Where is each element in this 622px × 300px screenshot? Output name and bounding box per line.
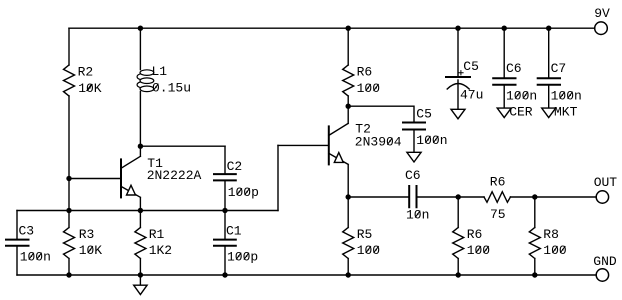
- node bottom C1: [222, 272, 227, 277]
- svg-text:100: 100: [357, 243, 380, 258]
- wire C7 ground stem: [548, 85, 550, 108]
- wire C6 cer top lead: [503, 28, 505, 78]
- wire C6 ground stem: [503, 85, 505, 108]
- wire C2 upper lead: [224, 146, 226, 174]
- wire R2 top lead: [68, 28, 70, 65]
- wire riser x278: [277, 145, 279, 210]
- node R6 out: [456, 194, 461, 199]
- svg-text:100: 100: [357, 81, 380, 96]
- node L1 top: [138, 26, 143, 31]
- svg-text:CER: CER: [509, 105, 533, 120]
- node C2 C1: [222, 208, 227, 213]
- wire R6 75 left lead: [458, 196, 484, 198]
- wire top 9V rail: [69, 27, 595, 29]
- capacitor C5 100n: [403, 123, 425, 130]
- wire C1 upper lead: [224, 211, 226, 240]
- svg-text:R1: R1: [149, 227, 165, 242]
- wire C2 lower lead: [224, 180, 226, 210]
- node bottom R3: [66, 272, 71, 277]
- wire ground stem under R1: [139, 275, 141, 285]
- resistor R2: [64, 65, 75, 96]
- svg-text:75: 75: [490, 207, 506, 222]
- ground main: [134, 285, 147, 294]
- resistor R6 emitter: [453, 197, 464, 275]
- wire C3 upper lead: [16, 211, 18, 240]
- svg-text:2N2222A: 2N2222A: [147, 168, 202, 183]
- wire L1 top lead: [139, 28, 141, 69]
- transistor T2: [329, 106, 348, 197]
- svg-text:100: 100: [467, 243, 490, 258]
- wire R6 top lead: [347, 28, 349, 65]
- resistor R8: [529, 197, 540, 275]
- svg-text:10K: 10K: [79, 243, 103, 258]
- ground under C5: [407, 152, 421, 162]
- ground under C6: [497, 108, 511, 118]
- terminal OUT: [596, 191, 608, 203]
- wire R2 bottom lead: [68, 96, 70, 179]
- resistor R6 collector: [343, 65, 354, 96]
- zero slashes: [29, 84, 573, 260]
- transistor T1: [121, 146, 140, 210]
- svg-text:100n: 100n: [551, 89, 582, 104]
- svg-text:2N3904: 2N3904: [355, 135, 402, 150]
- wire C5 47u ground stem: [457, 80, 459, 109]
- wire C1 lower lead: [224, 246, 226, 275]
- svg-text:C6: C6: [506, 61, 522, 76]
- svg-text:R8: R8: [543, 227, 559, 242]
- svg-text:100: 100: [543, 243, 566, 258]
- resistor R1: [135, 211, 146, 276]
- wire bottom rail: [17, 274, 596, 276]
- svg-text:10K: 10K: [78, 81, 102, 96]
- wire C6 to node: [417, 196, 459, 198]
- node C7 top: [546, 26, 551, 31]
- capacitor C6 100n CER: [493, 78, 515, 84]
- wire C5 47u top lead: [457, 28, 459, 77]
- wire emitter row: [69, 210, 278, 212]
- wire C5 ground stem: [413, 130, 415, 153]
- node T1 base: [66, 176, 71, 181]
- svg-text:47u: 47u: [460, 88, 483, 103]
- resistor R3: [64, 211, 75, 276]
- wire OUT row left: [348, 196, 409, 198]
- svg-text:GND: GND: [593, 254, 617, 269]
- wire T1 base: [69, 178, 121, 180]
- svg-text:R2: R2: [78, 65, 94, 80]
- svg-text:10n: 10n: [406, 208, 429, 223]
- svg-text:100p: 100p: [228, 185, 259, 200]
- wire left column: [68, 179, 70, 211]
- node T2 collector: [346, 104, 351, 109]
- wire T2 collector to C5: [348, 106, 414, 122]
- node bottom R1: [138, 272, 143, 277]
- wire R6 75 right lead: [510, 196, 534, 198]
- node bottom R6: [456, 272, 461, 277]
- svg-text:100p: 100p: [227, 250, 258, 265]
- svg-text:MKT: MKT: [554, 105, 578, 120]
- node C5 top: [455, 26, 460, 31]
- terminal 9V: [595, 22, 608, 35]
- wire T2 base: [278, 144, 329, 146]
- svg-text:R5: R5: [357, 227, 373, 242]
- resistor R6 75: [484, 192, 510, 203]
- svg-text:C6: C6: [405, 168, 421, 183]
- capacitor C6 10n: [409, 186, 416, 207]
- svg-text:R6: R6: [490, 174, 506, 189]
- node T1 emitter: [138, 208, 143, 213]
- svg-text:C5: C5: [416, 107, 432, 122]
- svg-text:R6: R6: [467, 227, 483, 242]
- node C6 top: [502, 26, 507, 31]
- svg-text:R6: R6: [357, 65, 373, 80]
- ground under C5 47u: [451, 109, 465, 119]
- svg-text:C3: C3: [19, 224, 35, 239]
- svg-text:100n: 100n: [416, 133, 447, 148]
- svg-text:100n: 100n: [20, 250, 51, 265]
- svg-text:C2: C2: [227, 159, 243, 174]
- svg-text:9V: 9V: [594, 6, 610, 21]
- svg-text:0.15u: 0.15u: [152, 81, 191, 96]
- capacitor C2: [214, 174, 236, 180]
- wire C3 top: [17, 210, 69, 212]
- node T2 emitter: [346, 194, 351, 199]
- node R6 top: [346, 26, 351, 31]
- terminal GND: [596, 269, 608, 281]
- capacitor C5 47u: [446, 71, 470, 89]
- node emitter row left: [66, 208, 71, 213]
- svg-text:R3: R3: [79, 227, 95, 242]
- node T1 collector: [138, 144, 143, 149]
- svg-text:C1: C1: [226, 224, 242, 239]
- resistor R5: [343, 197, 354, 275]
- wire C7 top lead: [548, 28, 550, 78]
- svg-text:1K2: 1K2: [149, 243, 172, 258]
- node R8 out: [532, 194, 537, 199]
- svg-text:C5: C5: [463, 59, 479, 74]
- wire R6 bottom lead: [347, 96, 349, 106]
- svg-text:OUT: OUT: [594, 175, 618, 190]
- capacitor C7 100n MKT: [538, 78, 560, 84]
- inductor L1: [137, 70, 154, 92]
- wire T1 collector row: [140, 145, 225, 147]
- svg-text:C7: C7: [551, 61, 567, 76]
- ground under C7: [542, 108, 556, 118]
- svg-text:100n: 100n: [506, 89, 537, 104]
- wire OUT lead: [535, 196, 596, 198]
- capacitor C1: [214, 240, 236, 246]
- node bottom R5: [346, 272, 351, 277]
- capacitor C3: [6, 240, 29, 246]
- wire C3 lower lead: [16, 246, 18, 275]
- node bottom R8: [532, 272, 537, 277]
- svg-text:L1: L1: [152, 64, 168, 79]
- wire L1 bottom lead: [139, 91, 141, 146]
